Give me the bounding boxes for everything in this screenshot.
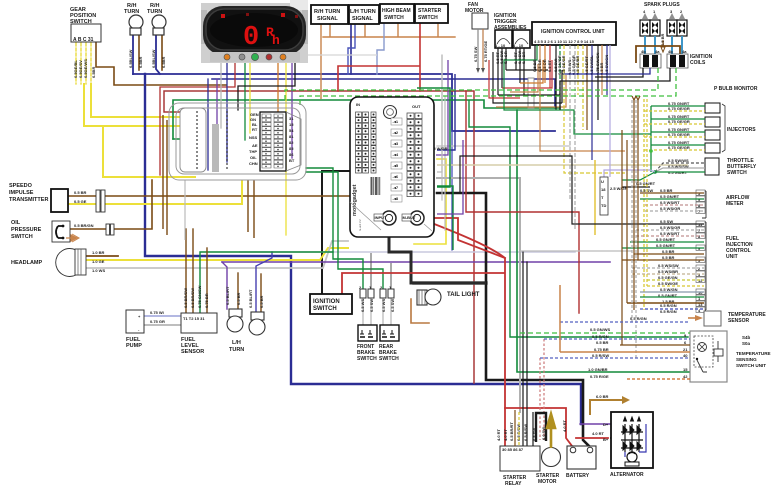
wire lavender long mid [240, 251, 575, 253]
wire green mid bus2 [469, 101, 688, 337]
out ladder beige long [437, 164, 688, 166]
wire speedo drop orange [277, 62, 279, 120]
svg-text:0.5 W/GN: 0.5 W/GN [660, 287, 678, 292]
svg-text:-◂6: -◂6 [393, 174, 399, 179]
svg-text:B+: B+ [603, 437, 609, 442]
wire yellow gear D dashed [90, 43, 92, 84]
svg-text:IN: IN [356, 102, 360, 107]
svg-text:S4b: S4b [742, 335, 751, 340]
svg-text:30 85 86 87: 30 85 86 87 [502, 447, 524, 452]
svg-text:BATTERY: BATTERY [566, 473, 590, 479]
svg-text:4b: 4b [641, 49, 646, 54]
svg-text:0.5 SW: 0.5 SW [369, 299, 374, 312]
lavender 2.5 wire and connector [595, 160, 655, 235]
svg-text:SWITCH: SWITCH [418, 15, 438, 21]
left module pin block [180, 108, 228, 172]
starter switch box [415, 4, 448, 23]
svg-text:0.5 R/GN: 0.5 R/GN [630, 316, 647, 321]
wire navy frame headlamp to alternator [145, 74, 581, 424]
svg-text:15: 15 [683, 367, 688, 372]
svg-text:0.5 BR: 0.5 BR [662, 249, 675, 254]
svg-text:0.5 R/SW: 0.5 R/SW [523, 424, 528, 441]
wire green fuel sensor 15 [200, 252, 333, 312]
svg-text:SIGNAL: SIGNAL [352, 16, 373, 22]
svg-text:MOTOR: MOTOR [538, 479, 557, 485]
fi unit wires [460, 96, 704, 358]
wire speedo drop green [244, 62, 246, 140]
wire green main mid vertical [517, 110, 692, 372]
svg-text:0.5 WS/RT: 0.5 WS/RT [660, 231, 680, 236]
out ladder purple short [436, 60, 448, 155]
wire speedo drop purple [291, 62, 293, 158]
wire brown gear 31 [96, 43, 226, 85]
svg-text:0.5 BL/RT: 0.5 BL/RT [225, 286, 230, 305]
wire tan rh signal drop long [320, 24, 322, 99]
wire speedo drop navy [226, 62, 228, 162]
rh turn signal box [311, 5, 348, 24]
svg-text:54: 54 [289, 128, 294, 133]
ignition switch [310, 294, 352, 314]
svg-text:4.0 RT: 4.0 RT [562, 419, 567, 432]
headlamp [11, 249, 105, 277]
wire black alternator b+ [611, 437, 651, 439]
wire navy lh signal drop2 [348, 24, 355, 74]
wire purple lh bulb1 [222, 262, 227, 309]
svg-text:METER: METER [726, 201, 744, 207]
svg-text:4a: 4a [655, 49, 660, 54]
svg-text:0.5 R/GN: 0.5 R/GN [660, 309, 677, 314]
wire navy lh signal drop1 [350, 24, 352, 74]
wire grey brake drops [363, 296, 391, 325]
front brake switch [357, 325, 377, 362]
wire speedo drop yellow2 [285, 62, 287, 235]
svg-text:h: h [272, 33, 280, 48]
svg-text:1.0 BR: 1.0 BR [92, 250, 105, 255]
svg-text:TAIL LIGHT: TAIL LIGHT [447, 292, 480, 298]
svg-text:0.5 BR: 0.5 BR [74, 190, 87, 195]
svg-text:SWITCH UNIT: SWITCH UNIT [736, 363, 766, 368]
svg-text:40: 40 [683, 353, 688, 358]
trigger wires tangle [489, 48, 566, 107]
svg-text:85: 85 [289, 146, 294, 151]
inline connector 2.5 W/GR [419, 141, 448, 175]
svg-text:-◂3: -◂3 [393, 141, 399, 146]
injector wire labels [668, 101, 690, 150]
wire green brake left [306, 168, 363, 290]
svg-text:SWITCH: SWITCH [379, 356, 399, 362]
speedo impulse transmitter [9, 183, 105, 212]
motogadget module [350, 97, 434, 237]
svg-text:31: 31 [289, 116, 294, 121]
svg-text:0.5 BR: 0.5 BR [596, 340, 609, 345]
wire brown tail light [411, 299, 429, 323]
wire brown 6.0 BR [590, 400, 622, 414]
wire grey main vertical [437, 178, 520, 412]
tail light [417, 289, 480, 305]
svg-text:0.5 GN/WS: 0.5 GN/WS [590, 327, 611, 332]
svg-text:IMPULSE: IMPULSE [9, 190, 34, 196]
wire navy rh turn bulb1 [132, 35, 134, 74]
lh turn signal box [349, 5, 379, 24]
left module terminal block [249, 112, 301, 171]
rear brake switch [379, 325, 399, 362]
svg-text:0.5 WS/SW: 0.5 WS/SW [658, 263, 679, 268]
wire blue lh bulb2 [256, 252, 272, 312]
svg-text:SWITCH: SWITCH [727, 170, 747, 176]
wire dashed feeders to relay [540, 339, 544, 440]
svg-text:18: 18 [601, 187, 606, 192]
wire brown fuel sensor t1 [185, 229, 187, 312]
wire yellow gear A dashed [75, 43, 77, 84]
svg-text:0.5 GN/RT: 0.5 GN/RT [636, 181, 656, 186]
svg-text:INJECTORS: INJECTORS [727, 127, 756, 133]
wire green ring top [173, 100, 560, 139]
svg-text:NSS: NSS [249, 135, 258, 140]
svg-text:AE: AE [252, 143, 258, 148]
svg-text:0.75 R/GE: 0.75 R/GE [590, 374, 609, 379]
svg-text:-◂4: -◂4 [393, 152, 399, 157]
wire grey feeder fi [520, 250, 632, 252]
wire brown rh turn bulb2 [161, 35, 163, 70]
svg-text:U: U [601, 179, 604, 184]
svg-text:86: 86 [289, 152, 294, 157]
svg-text:0.5 BR: 0.5 BR [521, 51, 526, 64]
svg-text:1 - 10: 1 - 10 [495, 43, 506, 48]
svg-text:0.5 WS: 0.5 WS [381, 299, 386, 312]
svg-text:2.5 W/GR: 2.5 W/GR [610, 186, 628, 191]
svg-text:IGNITION CONTROL UNIT: IGNITION CONTROL UNIT [541, 29, 605, 35]
wire grey mid east [437, 145, 570, 147]
wire red relay to battery [505, 408, 572, 446]
starter motor [536, 413, 561, 485]
svg-text:0.5 BR: 0.5 BR [662, 255, 675, 260]
gear wire labels [73, 59, 96, 78]
wire yellow headlamp long [85, 248, 348, 260]
wire grey below module [184, 180, 186, 240]
svg-text:0.5 SW/WS: 0.5 SW/WS [668, 158, 689, 163]
svg-text:82: 82 [289, 140, 294, 145]
grey dashed mid vertical 2 [574, 45, 576, 230]
svg-text:HEADLAMP: HEADLAMP [11, 260, 42, 266]
svg-text:SWITCH: SWITCH [384, 15, 404, 21]
svg-text:0.5BL/SW: 0.5BL/SW [151, 49, 156, 68]
ignition control unit [532, 22, 616, 45]
wire red module curve [424, 220, 505, 258]
svg-text:0.5 GN/RT: 0.5 GN/RT [656, 243, 676, 248]
svg-text:IGNITION: IGNITION [313, 299, 340, 305]
svg-text:TURN: TURN [229, 347, 244, 353]
fuel level sensor [181, 285, 217, 355]
svg-text:0.5 SW: 0.5 SW [390, 299, 395, 312]
svg-text:4 3 5 3 2 6 1 10 11 12 7 8 9 1: 4 3 5 3 2 6 1 10 11 12 7 8 9 14 15 [534, 39, 595, 44]
wire brown lh bulb2 [260, 274, 262, 312]
wire brown rh turn bulb1 [138, 35, 140, 70]
svg-text:P BULB MONITOR: P BULB MONITOR [714, 86, 758, 92]
wire yellow gear B dashed [80, 43, 82, 84]
svg-text:CHN: CHN [249, 161, 258, 166]
battery [562, 419, 596, 479]
svg-text:0.5 GE/GN: 0.5 GE/GN [658, 275, 678, 280]
starter relay [496, 410, 540, 487]
svg-text:OIL: OIL [11, 220, 21, 226]
speedometer photo [201, 0, 308, 63]
oil pressure switch [11, 220, 114, 242]
svg-text:0.5 GN/RT: 0.5 GN/RT [656, 237, 676, 242]
svg-text:0.75 BR: 0.75 BR [594, 347, 609, 352]
ignition coils [636, 46, 713, 68]
wire yellow gear run1 [91, 84, 196, 117]
injector wires green [651, 106, 705, 172]
wire yellow speedo turnup [241, 180, 243, 204]
svg-text:L/H TURN: L/H TURN [350, 9, 376, 15]
svg-text:SWITCH: SWITCH [313, 306, 337, 312]
svg-text:TRANSMITTER: TRANSMITTER [9, 197, 48, 203]
svg-text:21: 21 [683, 347, 688, 352]
spark plugs [640, 2, 687, 52]
svg-text:THP: THP [249, 149, 257, 154]
wire grey headlamp long [85, 241, 348, 268]
svg-text:0.5 SW/GN: 0.5 SW/GN [604, 55, 609, 75]
svg-text:0.75 RT/GE: 0.75 RT/GE [483, 41, 488, 62]
svg-text:0.5BR: 0.5BR [138, 57, 143, 68]
svg-text:A B C 31: A B C 31 [73, 37, 94, 43]
lh turn lamp 1 [225, 286, 243, 332]
svg-text:0.75 GE/GR: 0.75 GE/GR [668, 132, 690, 137]
wire green brake right [306, 172, 383, 290]
wire brown oil pressure [69, 180, 152, 229]
wire steel high beam drop [377, 23, 384, 74]
lh turn lamp 2 [229, 289, 265, 353]
svg-text:0.75 GN/SW: 0.75 GN/SW [197, 285, 202, 308]
injectors [705, 103, 756, 153]
wire grey fuel pump [143, 324, 182, 326]
svg-text:0.75 WI: 0.75 WI [150, 310, 164, 315]
brake switch plugs [359, 285, 395, 312]
svg-text:4 - 10: 4 - 10 [513, 43, 524, 48]
ignition trigger assemblies [494, 13, 530, 48]
wire navy bus second [212, 79, 555, 108]
svg-text:0.5 BR/SW: 0.5 BR/SW [190, 288, 195, 308]
svg-text:SENSOR: SENSOR [728, 318, 750, 324]
wire grey tail feed thick [414, 281, 486, 284]
wire yellow speedo impulse [68, 203, 242, 205]
svg-text:0.5 SW/BL: 0.5 SW/BL [589, 55, 594, 75]
svg-text:SENSOR: SENSOR [181, 349, 204, 355]
icu pin wires [504, 45, 651, 200]
svg-text:0.75 GR: 0.75 GR [150, 319, 165, 324]
wire pale highbeam diagonal [250, 54, 377, 56]
wire speedo drop black [238, 62, 295, 110]
svg-text:0.5BR: 0.5BR [161, 57, 166, 68]
coil output wires [285, 68, 676, 110]
svg-text:m-unit V.2: m-unit V.2 [358, 219, 362, 231]
svg-text:SENSING: SENSING [736, 357, 757, 362]
svg-text:0.5 BR/RT: 0.5 BR/RT [509, 422, 514, 441]
svg-text:TURN: TURN [124, 9, 139, 15]
svg-text:TEMPERATURE: TEMPERATURE [736, 351, 771, 356]
svg-text:R/H TURN: R/H TURN [314, 9, 340, 15]
out ladder purple down [437, 140, 463, 214]
svg-text:0.5 RT: 0.5 RT [547, 59, 552, 72]
svg-text:RT: RT [252, 127, 258, 132]
throttle butterfly switch [668, 158, 757, 176]
brown left verticals [163, 115, 167, 235]
left connector module outline [169, 103, 306, 180]
svg-text:ALTERNATOR: ALTERNATOR [610, 472, 644, 478]
svg-text:0.5 SW: 0.5 SW [660, 219, 673, 224]
wire brown speedo impulse [68, 195, 354, 197]
svg-text:0.75 GE/GR: 0.75 GE/GR [668, 119, 690, 124]
wire navy rh turn bulb2 [156, 35, 160, 74]
wire navy bus turn signals [133, 74, 555, 131]
wire thin brake ones [371, 253, 391, 289]
fan motor [465, 2, 488, 73]
wire speedo drop grey [220, 62, 222, 128]
svg-text:0.5 BR/GN: 0.5 BR/GN [74, 223, 94, 228]
svg-text:S0a: S0a [742, 341, 751, 346]
wire brown fuel sensor 31 [206, 248, 208, 312]
wire grey mid verticals [442, 55, 445, 230]
svg-text:4.0 RT: 4.0 RT [592, 431, 605, 436]
rh turn lamp 2 [147, 3, 166, 68]
gear position switch [70, 7, 101, 43]
svg-text:SIGNAL: SIGNAL [317, 16, 338, 22]
wire navy module left vertical [207, 79, 209, 170]
svg-text:-◂2: -◂2 [393, 130, 399, 135]
svg-text:INPUT: INPUT [375, 215, 388, 220]
wire red ignition feed [342, 273, 505, 294]
wire speedo drop yellow [249, 62, 251, 133]
svg-text:42: 42 [683, 374, 688, 379]
svg-text:0.5 SW/GE: 0.5 SW/GE [658, 281, 678, 286]
out ladder navy [437, 74, 455, 150]
high beam switch box [380, 4, 414, 23]
svg-text:SWITCH: SWITCH [357, 356, 377, 362]
svg-text:0.5 WS/GR: 0.5 WS/GR [660, 225, 680, 230]
fuel pump [126, 310, 165, 349]
svg-text:0.5 BL/RT: 0.5 BL/RT [248, 289, 253, 308]
svg-text:-◂5: -◂5 [393, 163, 399, 168]
svg-text:OUT: OUT [412, 104, 421, 109]
svg-text:0.5 WS/GR: 0.5 WS/GR [660, 206, 680, 211]
WIRES-LAYER [68, 23, 692, 447]
svg-text:0.5 WS: 0.5 WS [360, 299, 365, 312]
spark teal leads [645, 36, 682, 54]
rh turn lamp 1 [124, 3, 143, 68]
svg-text:0.5 BR: 0.5 BR [236, 292, 241, 305]
svg-text:-◂7: -◂7 [393, 185, 399, 190]
svg-text:PUMP: PUMP [126, 343, 142, 349]
svg-text:0.5 R/GN: 0.5 R/GN [592, 334, 609, 339]
svg-text:D+: D+ [603, 422, 609, 427]
svg-text:SWITCH: SWITCH [11, 234, 33, 240]
svg-text:4.0 RT: 4.0 RT [503, 428, 508, 441]
svg-text:0.75 SW: 0.75 SW [473, 46, 478, 62]
svg-text:TD: TD [601, 203, 606, 208]
svg-text:0.5 GE/BR: 0.5 GE/BR [575, 56, 580, 75]
wire black main ground [437, 193, 590, 447]
temperature sensor [560, 303, 766, 326]
svg-text:0.5 R/SW: 0.5 R/SW [592, 353, 609, 358]
svg-text:PRESSURE: PRESSURE [11, 227, 42, 233]
svg-text:-◂8: -◂8 [393, 196, 399, 201]
svg-text:0.5 WS/RT: 0.5 WS/RT [660, 200, 680, 205]
wire red battery b+ [576, 437, 608, 439]
svg-text:0.5 BR/SW: 0.5 BR/SW [183, 288, 188, 308]
wire speedo drop red [160, 62, 235, 175]
svg-text:0.5 GE/GR: 0.5 GE/GR [561, 55, 566, 75]
svg-text:OIL: OIL [250, 155, 257, 160]
svg-text:0.5 WS/BR: 0.5 WS/BR [658, 269, 678, 274]
throttle wires [622, 149, 705, 193]
svg-text:BT: BT [289, 158, 295, 163]
svg-text:T1 T2 15 31: T1 T2 15 31 [183, 316, 205, 321]
arrow brown 6.0 BR [622, 396, 630, 404]
airflow wires [640, 193, 704, 211]
wire tan bus switch row [323, 23, 455, 37]
svg-text:0.5 R/GN: 0.5 R/GN [660, 303, 677, 308]
out ladder green [437, 186, 453, 250]
out ladder grey [437, 55, 442, 172]
wire brown pair below module [248, 180, 254, 238]
wire yellow mid vertical [414, 159, 446, 244]
wire brown fuel sensor t2 [192, 229, 194, 312]
alternator [592, 394, 653, 478]
svg-text:STARTER: STARTER [418, 8, 442, 14]
wire brown headlamp [85, 255, 118, 257]
svg-text:6.0 SW: 6.0 SW [541, 427, 546, 440]
svg-text:0.5 GE: 0.5 GE [74, 199, 87, 204]
svg-text:1.0 GN/BR: 1.0 GN/BR [588, 367, 608, 372]
wire yellow gear run3 [103, 126, 195, 177]
svg-text:SPARK PLUGS: SPARK PLUGS [644, 2, 680, 8]
wire yellow gear C dashed [85, 43, 87, 84]
svg-text:-◂1: -◂1 [393, 119, 399, 124]
wire red ring top [164, 91, 474, 383]
svg-text:RELAY: RELAY [505, 481, 522, 487]
svg-text:4a: 4a [682, 49, 687, 54]
svg-text:TURN: TURN [147, 9, 162, 15]
black module to brake plugs [389, 226, 486, 283]
wire black thin relay pair [523, 252, 527, 446]
fuel injection control unit [656, 219, 753, 314]
svg-text:L/H: L/H [232, 340, 241, 346]
wire black ignition switch [322, 171, 352, 294]
svg-text:HIGH BEAM: HIGH BEAM [382, 8, 411, 14]
svg-text:0.5 BR: 0.5 BR [259, 295, 264, 308]
wire green into module [173, 138, 196, 140]
wire lavender fuel pump [143, 315, 182, 317]
injector wires yellow dashed [644, 99, 705, 310]
svg-text:SPEEDO: SPEEDO [9, 183, 33, 189]
wire blue mid drop [451, 131, 453, 250]
wire green module loop [417, 88, 450, 187]
wire yellow gear run2 [84, 84, 193, 126]
temp switch wires [520, 285, 690, 379]
svg-text:1.0 GE: 1.0 GE [92, 259, 105, 264]
airflow meter [660, 188, 750, 218]
svg-text:4.0 RT: 4.0 RT [496, 428, 501, 441]
svg-text:4b: 4b [668, 49, 673, 54]
wire red main starter feed [370, 218, 505, 446]
svg-text:0: 0 [243, 23, 259, 53]
svg-text:0.5 BR: 0.5 BR [660, 188, 673, 193]
wire red starter switch to ignition switch [338, 23, 420, 91]
wire purple long bus [222, 261, 610, 263]
svg-text:0.75 GE/GR: 0.75 GE/GR [668, 106, 690, 111]
temperature sensing switch unit [690, 331, 771, 382]
wire purple module left vertical [216, 79, 218, 170]
